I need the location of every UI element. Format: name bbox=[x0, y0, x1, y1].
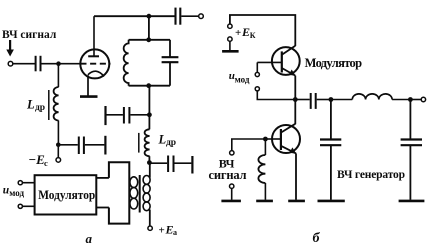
wire node to C5 bbox=[149, 162, 167, 164]
inductor L out (b) bbox=[352, 94, 392, 100]
svg-text:др: др bbox=[166, 138, 176, 148]
svg-text:Модулятор: Модулятор bbox=[38, 187, 95, 202]
terminal +Ea bbox=[148, 226, 152, 230]
wire output node to terminal bbox=[410, 99, 421, 101]
wire tank bottom down to choke bbox=[148, 86, 150, 130]
transformer T1 primary loop bbox=[109, 162, 129, 223]
wire C1 to grid bbox=[42, 63, 81, 65]
capacitor C1 (grid coupling) bbox=[36, 56, 41, 72]
wire tank node to L out bbox=[331, 99, 352, 101]
tube VL1 envelope bbox=[80, 49, 109, 78]
wire tank bottom bbox=[129, 85, 170, 87]
capacitor C3 (output coupling) bbox=[176, 8, 181, 25]
inductor Ldr1 (grid choke) bbox=[49, 87, 59, 121]
wire C5 to chassis stub bbox=[175, 162, 192, 164]
wire secondary top to node bbox=[149, 163, 151, 178]
transistor Q1 base bar bbox=[281, 51, 283, 72]
ground (cathode chassis bar) bbox=[80, 95, 98, 98]
terminal output (a) bbox=[199, 14, 204, 19]
ground chassis bar (RF in) bbox=[221, 200, 241, 203]
svg-text:а: а bbox=[86, 231, 93, 246]
transistor Q1 (modulator) envelope bbox=[272, 47, 300, 75]
svg-text:ВЧ сигнал: ВЧ сигнал bbox=[2, 29, 57, 41]
node supply junction bbox=[147, 160, 152, 165]
wire C4 to node bbox=[130, 114, 149, 116]
label RF generator bbox=[337, 169, 405, 181]
transformer T1 secondary winding bbox=[143, 176, 150, 211]
label Modulator (b) bbox=[305, 56, 363, 70]
terminal output (b) bbox=[421, 97, 425, 101]
wire +Ek up and top rail bbox=[230, 15, 295, 46]
node -Ec bbox=[56, 143, 61, 148]
wire C3 to output terminal bbox=[181, 15, 198, 17]
label Modulator (a) bbox=[38, 187, 95, 202]
capacitor C8 (output) bbox=[401, 100, 422, 200]
terminal RF in 2 (b) bbox=[230, 184, 234, 188]
wire u_mod2 to emitter rail bbox=[257, 91, 294, 100]
node grid junction bbox=[56, 61, 61, 66]
transistor Q2 emitter with arrow bbox=[281, 146, 296, 154]
capacitor C6 (coupling) bbox=[311, 93, 316, 109]
wire C2 to chassis stub bbox=[85, 144, 105, 146]
svg-text:мод: мод bbox=[9, 188, 24, 198]
transistor Q2 (RF generator) envelope bbox=[272, 125, 300, 153]
wire u_mod1 to base bbox=[256, 62, 258, 72]
svg-text:сигнал: сигнал bbox=[209, 168, 247, 182]
label "ВЧ сигнал" input bbox=[2, 29, 57, 41]
svg-text:К: К bbox=[250, 31, 256, 40]
ground chassis bar (C8) bbox=[399, 200, 425, 203]
terminal RF in 1 (b) bbox=[230, 151, 234, 155]
wire top rail to tank bbox=[148, 16, 150, 40]
wire grid node down bbox=[57, 64, 59, 87]
wire u_mod upper to box bbox=[22, 182, 34, 184]
label u_mod (b) bbox=[229, 70, 250, 85]
wire anode top rail bbox=[94, 15, 175, 17]
wire tank top bbox=[129, 39, 170, 41]
capacitor C tank (a) bbox=[162, 40, 179, 86]
svg-text:б: б bbox=[313, 231, 321, 246]
wire -Ec node to C2 bbox=[61, 144, 78, 146]
wire choke to supply node bbox=[148, 156, 150, 164]
terminal u_mod lower (a) bbox=[18, 204, 22, 208]
ground chassis bar (choke) bbox=[256, 200, 273, 203]
transistor Q2 collector lead bbox=[281, 124, 295, 133]
wire chassis stub to C4 bbox=[107, 114, 123, 116]
wire terminal to chassis bbox=[229, 41, 231, 50]
arrow input bbox=[6, 40, 14, 57]
tube VL1 cathode bbox=[88, 71, 104, 76]
node tank (b) bbox=[329, 97, 334, 102]
label u_mod (a) bbox=[3, 184, 25, 197]
wire box to transformer upper bbox=[96, 177, 109, 179]
wire choke to ground bbox=[264, 183, 266, 200]
svg-text:ВЧ генератор: ВЧ генератор bbox=[337, 169, 405, 181]
wire cathode to ground bbox=[87, 75, 89, 96]
node tank bottom bbox=[146, 83, 151, 88]
node output (b) bbox=[408, 97, 413, 102]
svg-text:L: L bbox=[26, 98, 35, 112]
ground chassis bar (C7) bbox=[318, 200, 345, 203]
node tank top bbox=[146, 37, 151, 42]
transistor Q1 base lead bbox=[257, 61, 282, 63]
wire choke to -Ec node bbox=[57, 121, 59, 147]
svg-text:др: др bbox=[35, 103, 45, 113]
wire terminal to chassis bbox=[231, 188, 233, 199]
modulator box (a) bbox=[35, 175, 97, 214]
terminal T1 (RF input) bbox=[8, 61, 13, 66]
label -Ec bbox=[28, 152, 48, 168]
node anode bypass bbox=[147, 112, 152, 117]
tube VL1 grid (dashed) bbox=[80, 63, 110, 65]
chassis stub bar (C5) bbox=[191, 156, 193, 174]
svg-text:−E: −E bbox=[28, 152, 45, 167]
chassis stub bar (C2) bbox=[104, 136, 106, 155]
inductor Ldr2 (anode choke) bbox=[139, 129, 150, 156]
transistor Q2 base bar bbox=[280, 129, 282, 150]
wire T1 to C1 bbox=[13, 63, 35, 65]
wire u_mod lower to box bbox=[22, 205, 34, 207]
inductor L tank (a) bbox=[124, 40, 129, 86]
terminal u_mod 2 (b) bbox=[255, 87, 259, 91]
node Q2 base bbox=[263, 137, 268, 142]
label RF signal (b) bbox=[209, 157, 247, 182]
chassis stub bar (C4) bbox=[104, 106, 106, 125]
label Ldr1 bbox=[26, 98, 45, 114]
terminal u_mod upper (a) bbox=[18, 181, 22, 185]
terminal -Ec bbox=[57, 147, 59, 158]
transistor Q1 emitter with arrow bbox=[282, 68, 296, 76]
label +Ea bbox=[159, 223, 178, 238]
wire secondary bottom to +Ea bbox=[149, 210, 151, 227]
svg-text:+: + bbox=[235, 27, 241, 39]
wire node to C6 bbox=[295, 99, 309, 101]
terminal u_mod 1 (b) bbox=[255, 72, 259, 76]
wire Q2 collector bbox=[294, 100, 296, 125]
capacitor C2 (grid bias bypass) bbox=[79, 137, 84, 155]
wire RF in to base node bbox=[232, 139, 264, 151]
svg-text:с: с bbox=[44, 158, 48, 168]
inductor L base choke (b) bbox=[258, 155, 265, 183]
capacitor C7 (tank) bbox=[320, 100, 341, 200]
svg-text:мод: мод bbox=[235, 75, 250, 85]
label Ldr2 bbox=[158, 132, 177, 148]
wire box to transformer lower bbox=[96, 207, 109, 209]
svg-text:Модулятор: Модулятор bbox=[305, 56, 363, 70]
wire Q2 emitter to ground bbox=[295, 153, 297, 199]
terminal +Ek bbox=[228, 24, 232, 28]
node top rail / tank bbox=[147, 14, 152, 19]
capacitor C4 (anode bypass) bbox=[124, 107, 129, 124]
node Q1 emitter / Q2 collector bbox=[293, 97, 298, 102]
capacitor C5 (supply bypass) bbox=[168, 156, 173, 173]
label b (subfigure) bbox=[313, 231, 321, 246]
wire Q1 emitter down bbox=[294, 76, 296, 100]
label +Ek bbox=[235, 25, 256, 40]
ground chassis bar (+Ek) bbox=[222, 50, 239, 53]
svg-text:а: а bbox=[173, 228, 177, 237]
tube VL1 anode bbox=[88, 55, 99, 57]
wire base node down bbox=[264, 139, 266, 155]
transistor Q1 collector bbox=[282, 46, 296, 55]
wire C6 to tank node bbox=[317, 99, 331, 101]
ground chassis bar (Q2 emitter) bbox=[288, 200, 305, 203]
transformer T1 core bbox=[139, 175, 141, 213]
label a (subfigure) bbox=[86, 231, 93, 246]
svg-text:+: + bbox=[159, 225, 165, 237]
svg-text:E: E bbox=[241, 25, 250, 39]
transformer T1 primary winding bbox=[130, 177, 138, 209]
wire L out to output node bbox=[392, 99, 410, 101]
terminal +Ek ground side bbox=[228, 37, 232, 41]
transistor Q2 base lead bbox=[265, 138, 281, 140]
